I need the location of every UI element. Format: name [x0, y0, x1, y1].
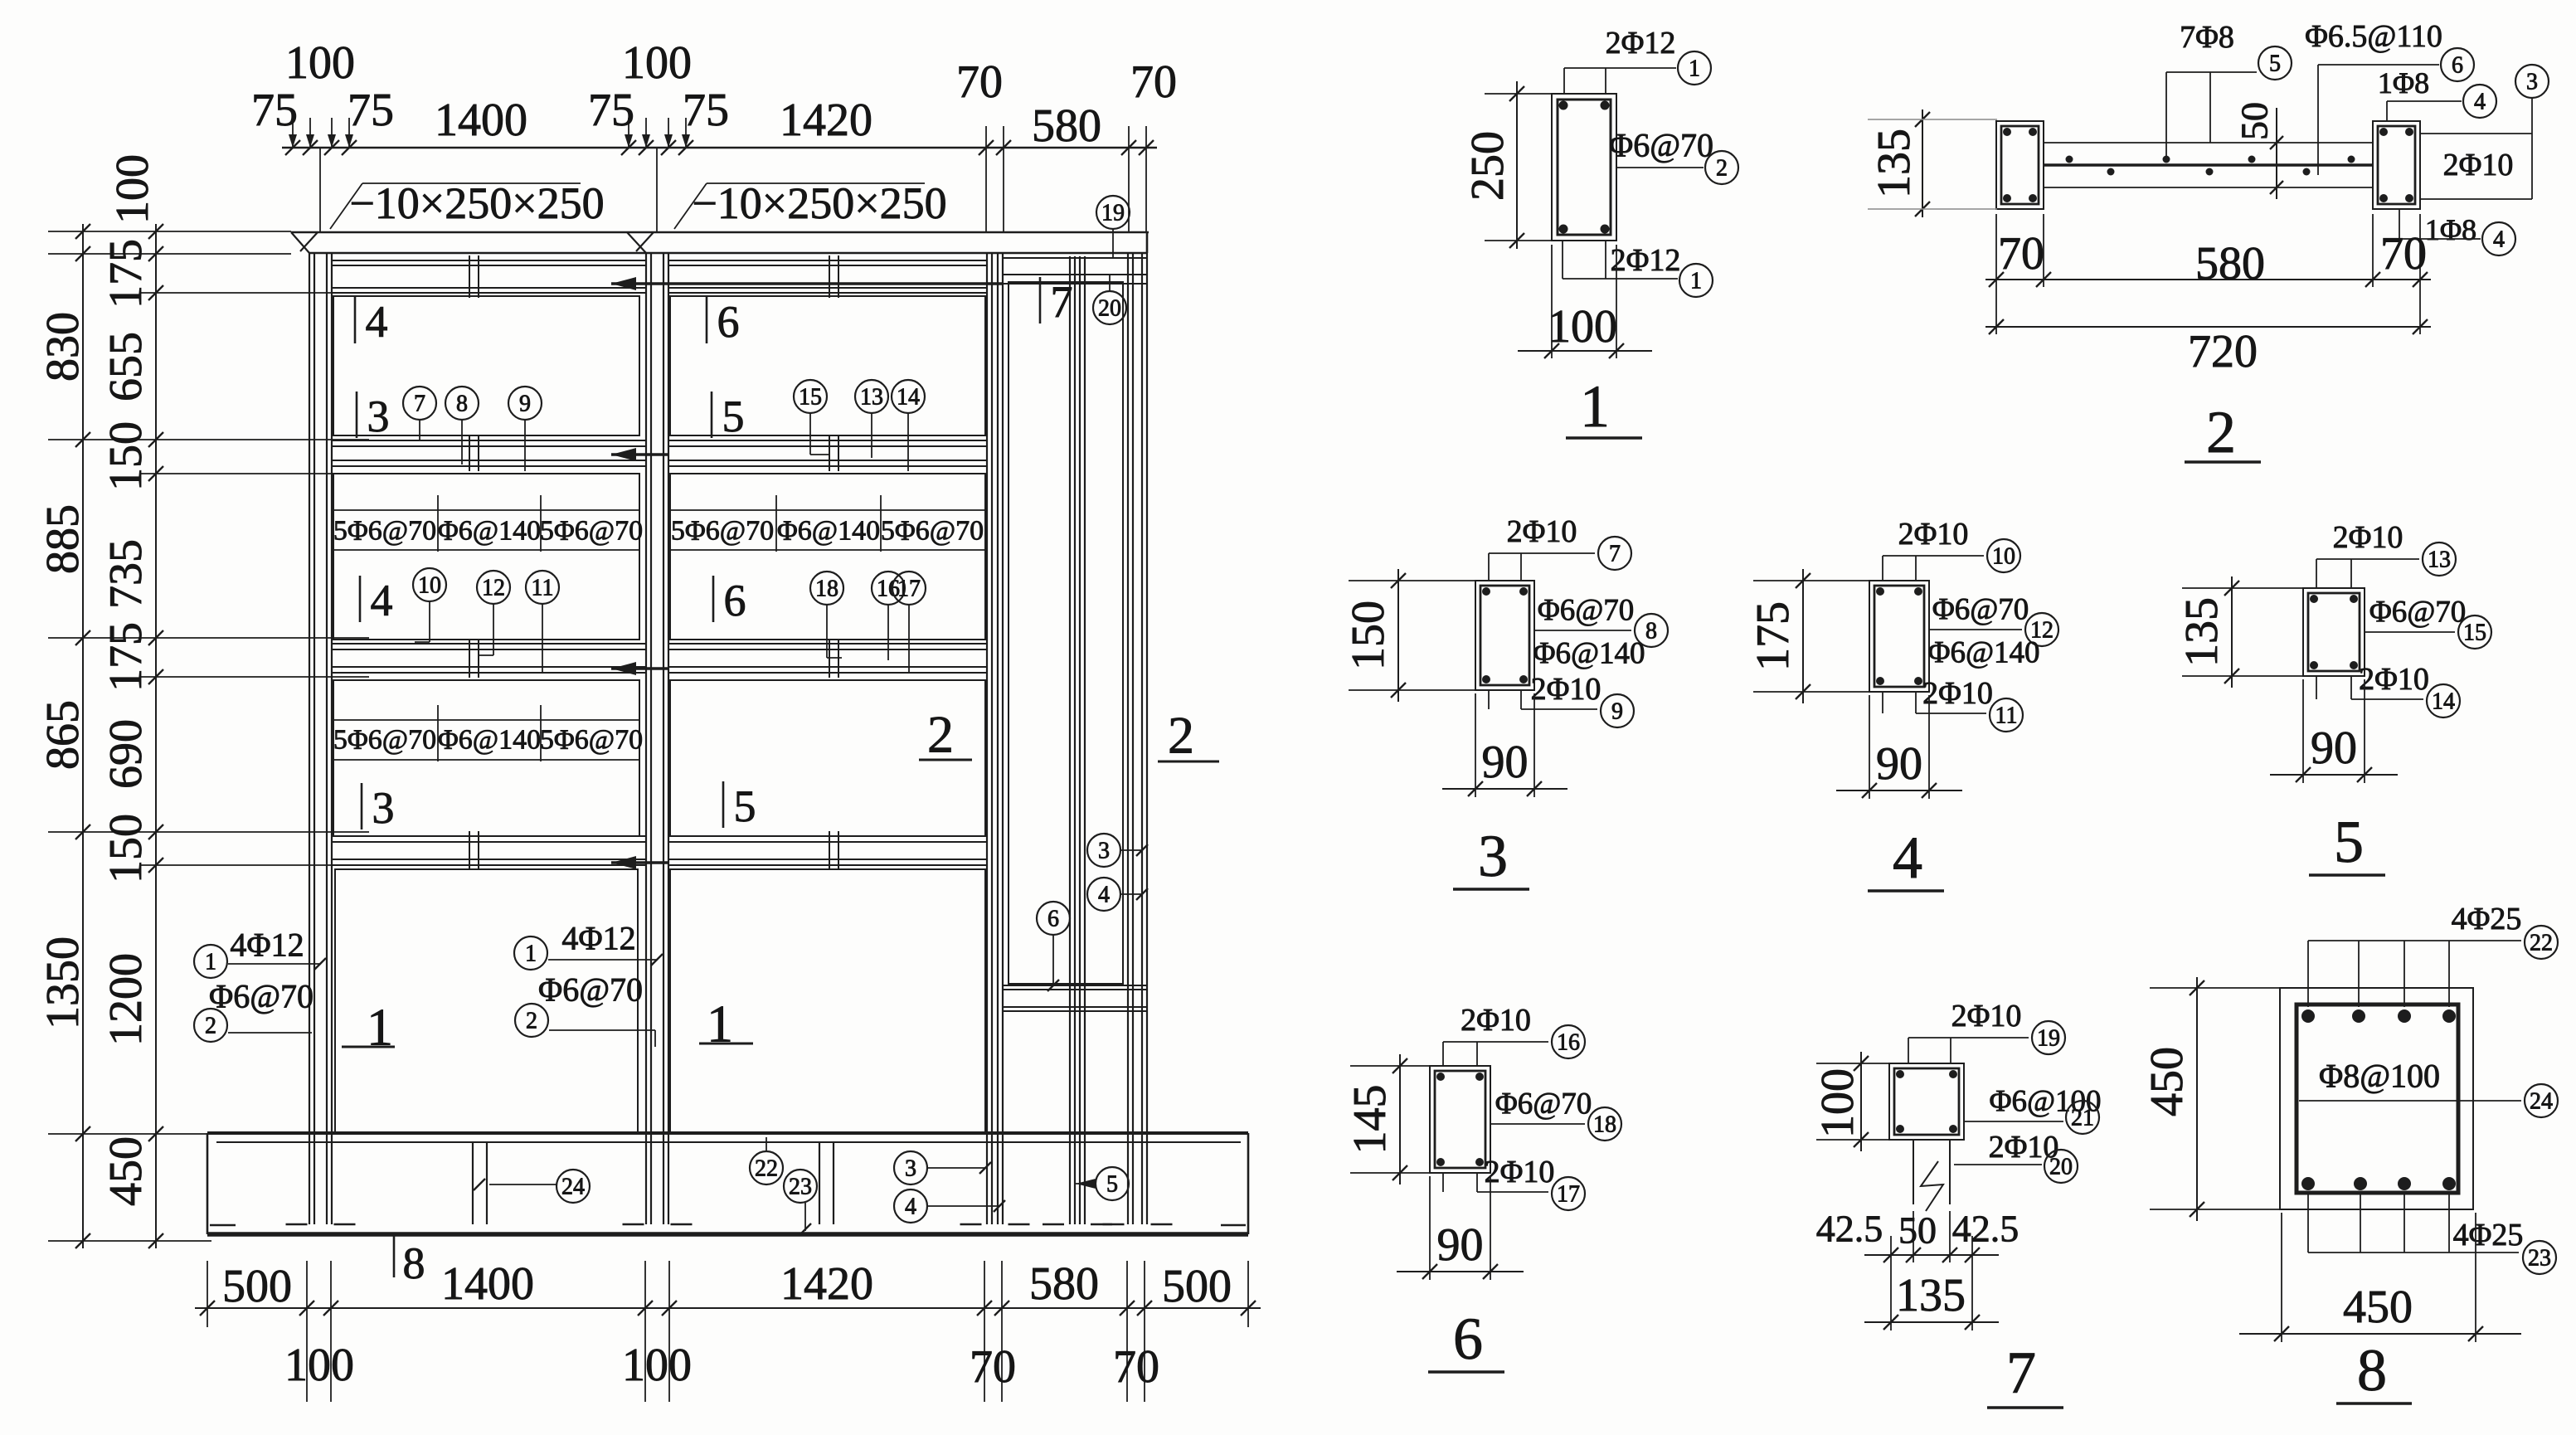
svg-text:450: 450: [2141, 1047, 2193, 1116]
top dim label 75 pair middle: [588, 85, 729, 136]
wall label 3 row1 bay1: [357, 392, 390, 441]
left outer dim line: [75, 224, 90, 1248]
svg-text:8: 8: [2357, 1337, 2387, 1403]
top dim extension lines right: [986, 126, 1146, 231]
svg-text:24: 24: [561, 1175, 585, 1200]
section2 callout 4 1phi8 bottom: [2399, 209, 2515, 255]
wall label 7 narrow bay: [1040, 277, 1073, 327]
svg-text:10: 10: [1992, 544, 2015, 570]
section2 dim 720: [1985, 287, 2431, 377]
ring beam level3 bay1: [332, 836, 646, 865]
svg-text:5: 5: [2269, 51, 2281, 77]
section7 dim 100: [1812, 1052, 1893, 1151]
section8 title 8: [2336, 1337, 2412, 1403]
foundation stirrup pair bay2: [819, 1142, 834, 1224]
svg-text:16: 16: [1557, 1030, 1580, 1056]
section6 top bars 2phi10 callout: [1443, 1003, 1585, 1066]
section8 footing outline: [2280, 988, 2473, 1209]
svg-text:3: 3: [1098, 839, 1110, 864]
svg-text:4: 4: [1893, 825, 1922, 891]
svg-text:2Φ10: 2Φ10: [1485, 1155, 1555, 1189]
section4 top bars 2phi10 callout: [1883, 517, 2020, 581]
svg-text:23: 23: [789, 1175, 812, 1200]
svg-text:70: 70: [970, 1341, 1016, 1393]
narrow bay center member: [1070, 256, 1085, 1224]
svg-text:100: 100: [622, 1340, 692, 1391]
svg-text:145: 145: [1344, 1085, 1396, 1155]
section4 title 4: [1868, 825, 1944, 891]
svg-text:720: 720: [2188, 326, 2258, 377]
column left (4 lines): [309, 253, 332, 1224]
svg-text:450: 450: [100, 1136, 152, 1206]
svg-text:1Φ8: 1Φ8: [2378, 66, 2429, 100]
svg-text:175: 175: [100, 622, 152, 692]
top dimension line: [282, 140, 1157, 155]
wall panel row3 bay1: [333, 680, 639, 836]
svg-text:9: 9: [1611, 699, 1623, 725]
top dim extension lines left column cluster: [289, 118, 353, 231]
svg-text:Φ6@70: Φ6@70: [1609, 127, 1713, 164]
svg-text:14: 14: [897, 385, 920, 411]
svg-text:4: 4: [905, 1194, 916, 1220]
wall panel row2 bay2: [670, 474, 985, 640]
svg-text:5: 5: [2334, 809, 2364, 875]
svg-text:5Φ6@70: 5Φ6@70: [540, 516, 643, 547]
ring beam level2 bay1: [332, 644, 646, 673]
section7 wall stub below with break: [1913, 1140, 1950, 1211]
svg-text:70: 70: [956, 56, 1003, 108]
svg-text:17: 17: [897, 576, 921, 602]
section6 bottom bars 2phi10 callout: [1443, 1155, 1585, 1210]
svg-text:100: 100: [1812, 1068, 1864, 1138]
svg-text:Φ6.5@110: Φ6.5@110: [2305, 19, 2442, 54]
section1 bottom bars 2phi12 callout 1: [1563, 241, 1713, 297]
svg-text:Φ6@140: Φ6@140: [438, 725, 541, 756]
svg-text:3: 3: [367, 392, 390, 441]
svg-text:Φ8@100: Φ8@100: [2319, 1058, 2440, 1095]
svg-text:5: 5: [722, 392, 745, 441]
section cut arrow level1: [611, 448, 668, 461]
svg-text:735: 735: [100, 539, 152, 609]
svg-text:11: 11: [1995, 703, 2018, 729]
svg-text:2Φ10: 2Φ10: [2333, 520, 2403, 555]
svg-text:75: 75: [251, 85, 298, 136]
section5 bottom bars 2phi10 callout: [2316, 662, 2460, 717]
svg-text:100: 100: [285, 37, 355, 89]
section5 stirrup callout: [2365, 596, 2491, 649]
svg-text:2Φ10: 2Φ10: [1531, 672, 1601, 707]
top dim extension lines middle column cluster: [625, 118, 690, 231]
svg-text:1: 1: [525, 941, 537, 967]
section5 title 5: [2309, 809, 2385, 875]
svg-text:24: 24: [2530, 1089, 2553, 1115]
svg-text:1: 1: [1689, 56, 1700, 82]
section4 bottom bars 2phi10 callout: [1883, 676, 2023, 732]
svg-text:7: 7: [1051, 277, 1073, 327]
wall panel row1 bay1: [333, 296, 639, 435]
svg-text:Φ6@140: Φ6@140: [777, 516, 880, 547]
callout 11 wall4: [526, 571, 559, 673]
svg-text:2: 2: [526, 1009, 537, 1034]
svg-text:1400: 1400: [435, 95, 527, 146]
section3 width dim 90: [1442, 693, 1567, 797]
svg-text:1: 1: [1580, 373, 1610, 440]
svg-text:70: 70: [1998, 228, 2044, 280]
svg-text:90: 90: [1876, 738, 1922, 790]
section7 dim 135: [1864, 1270, 1999, 1330]
svg-text:6: 6: [1453, 1306, 1483, 1372]
section2 dim 70 580 70: [1985, 214, 2431, 289]
svg-text:4: 4: [1098, 883, 1110, 908]
beam connector marks: [469, 255, 838, 870]
svg-text:2Φ10: 2Φ10: [1922, 676, 1993, 711]
section5 column outline: [2303, 588, 2365, 676]
svg-text:50: 50: [2233, 102, 2276, 140]
callout 20 top right: [1093, 275, 1126, 324]
callout 24 foundation: [474, 1170, 590, 1203]
wall panel narrow bay inner border: [1009, 282, 1123, 984]
section cut arrow level3: [611, 856, 668, 869]
svg-text:42.5: 42.5: [1952, 1208, 2019, 1250]
section4 vertical dim 175: [1747, 569, 1871, 703]
section1 title 1: [1566, 373, 1642, 440]
svg-text:Φ6@70: Φ6@70: [209, 978, 313, 1015]
svg-text:Φ6@140: Φ6@140: [1927, 636, 2039, 670]
svg-text:−10×250×250: −10×250×250: [349, 178, 604, 228]
section2 right boundary column: [2373, 121, 2420, 209]
callout 3 right column: [1087, 834, 1148, 867]
section2 callout 5 7phi8: [2166, 20, 2292, 163]
wall label 6 row2 bay2: [713, 576, 746, 625]
foundation column feet: [210, 1224, 1246, 1225]
svg-text:Φ6@70: Φ6@70: [1538, 594, 1635, 628]
section7 stirrup phi6@100 callout 21: [1964, 1085, 2102, 1135]
svg-text:4: 4: [2493, 227, 2505, 253]
callout 22 foundation: [750, 1137, 783, 1184]
top dim label 75 pair left: [251, 85, 394, 136]
section2 left boundary column: [1996, 121, 2044, 209]
svg-text:Φ6@70: Φ6@70: [538, 971, 643, 1009]
svg-text:9: 9: [519, 392, 531, 417]
callout 12 wall4: [477, 571, 510, 655]
svg-text:Φ6@70: Φ6@70: [2369, 596, 2467, 630]
section6 stirrup callout: [1490, 1087, 1621, 1141]
svg-text:3: 3: [905, 1156, 916, 1182]
column right edge: [1128, 253, 1147, 1224]
svg-text:100: 100: [1548, 301, 1617, 353]
svg-text:580: 580: [1032, 100, 1101, 152]
svg-text:2: 2: [2206, 399, 2236, 465]
callout 7 wall3: [403, 387, 436, 440]
section3 top bars 2phi10 callout: [1489, 514, 1631, 581]
bottom beam narrow bay: [1003, 985, 1146, 1011]
svg-text:1350: 1350: [37, 936, 89, 1029]
section cut arrow top: [611, 277, 1003, 290]
section1 top bars 2phi12 callout 1: [1564, 26, 1711, 94]
left dim extension lines: [48, 231, 369, 1241]
mesh band2 bay1: [333, 705, 643, 761]
svg-text:175: 175: [100, 239, 152, 309]
bottom dim extension lines: [207, 1261, 1248, 1402]
section7 title 7: [1987, 1340, 2063, 1408]
section7 column outline: [1889, 1063, 1964, 1140]
svg-text:5Φ6@70: 5Φ6@70: [333, 725, 436, 756]
svg-text:Φ6@140: Φ6@140: [1533, 637, 1645, 671]
svg-text:5Φ6@70: 5Φ6@70: [881, 516, 984, 547]
section2 dim 50: [2233, 102, 2284, 199]
rebar label 2 middle column: [515, 971, 655, 1048]
section3 vertical dim 150: [1343, 569, 1477, 702]
svg-text:830: 830: [37, 312, 89, 382]
svg-text:15: 15: [799, 385, 822, 411]
ring beam level2 bay2: [668, 644, 987, 673]
svg-text:1: 1: [1690, 269, 1702, 294]
svg-text:1420: 1420: [780, 1258, 873, 1310]
svg-text:6: 6: [724, 576, 746, 625]
foundation stirrup pair bay1: [473, 1142, 487, 1224]
svg-text:19: 19: [2037, 1026, 2060, 1052]
plate callout -10x250x250 right: [674, 178, 947, 229]
top ring beam bay1: [332, 260, 646, 293]
section2 title 2: [2185, 399, 2261, 465]
callout 15 wall5: [794, 380, 829, 455]
section label 2 bay2: [919, 705, 972, 764]
svg-text:4Φ12: 4Φ12: [230, 927, 304, 964]
callout 13 wall5: [855, 380, 888, 458]
svg-text:450: 450: [2343, 1282, 2413, 1333]
svg-text:250: 250: [1462, 131, 1514, 201]
svg-text:3: 3: [2526, 70, 2538, 95]
section8 callout 24 stirrup: [2299, 1084, 2558, 1117]
wall label 5 row1 bay2: [712, 392, 745, 441]
svg-text:75: 75: [588, 85, 634, 136]
svg-text:6: 6: [2452, 53, 2463, 79]
top beam narrow bay: [1003, 258, 1146, 284]
wall label 4 row1 bay1: [355, 297, 388, 347]
svg-text:5Φ6@70: 5Φ6@70: [333, 516, 436, 547]
svg-text:2Φ10: 2Φ10: [1507, 514, 1577, 549]
svg-text:100: 100: [107, 154, 158, 224]
svg-text:2Φ12: 2Φ12: [1606, 26, 1676, 61]
svg-text:2Φ10: 2Φ10: [1461, 1003, 1531, 1038]
svg-text:1Φ8: 1Φ8: [2425, 213, 2476, 246]
svg-text:10: 10: [418, 573, 441, 599]
mesh band1 bay2: [670, 495, 985, 552]
svg-text:2Φ10: 2Φ10: [1989, 1130, 2059, 1165]
section6 width dim 90: [1397, 1176, 1524, 1280]
section3 title 3: [1453, 823, 1529, 889]
svg-text:4: 4: [366, 297, 388, 347]
section5 vertical dim 135: [2176, 576, 2305, 688]
svg-text:14: 14: [2432, 689, 2455, 715]
svg-text:150: 150: [100, 421, 152, 491]
rebar label 1 middle column: [514, 920, 663, 970]
svg-text:Φ6@70: Φ6@70: [1932, 593, 2029, 627]
callout 23 foundation: [784, 1170, 817, 1235]
svg-text:4Φ25: 4Φ25: [2453, 1218, 2524, 1253]
wall panel row1 bay2: [670, 296, 985, 435]
svg-text:Φ6@70: Φ6@70: [1495, 1087, 1592, 1121]
svg-text:2Φ12: 2Φ12: [1611, 243, 1681, 278]
section5 top bars 2phi10 callout: [2316, 520, 2456, 588]
section label 1 bay2: [699, 995, 753, 1053]
section label 1 bay1: [342, 998, 395, 1057]
svg-text:135: 135: [1896, 1270, 1966, 1321]
section3 bottom bars 2phi10 callout: [1489, 672, 1634, 727]
section8 dim 450 vertical: [2141, 977, 2285, 1221]
callout 5 foundation: [1076, 1167, 1129, 1200]
svg-text:1400: 1400: [441, 1258, 534, 1310]
svg-text:2Φ10: 2Φ10: [1898, 517, 1969, 552]
svg-text:6: 6: [1047, 907, 1059, 932]
wall label 3 row3 bay1: [362, 783, 395, 833]
svg-text:5: 5: [734, 781, 756, 831]
svg-text:8: 8: [456, 392, 468, 417]
svg-text:17: 17: [1557, 1182, 1580, 1208]
svg-text:12: 12: [482, 576, 505, 601]
section5 width dim 90: [2270, 679, 2398, 783]
svg-text:90: 90: [2311, 722, 2357, 774]
svg-text:175: 175: [1747, 601, 1799, 671]
foundation beam outline: [207, 1133, 1248, 1234]
wall label 4 row2 bay1: [360, 576, 393, 625]
top plate: [291, 232, 1149, 253]
svg-text:1: 1: [205, 950, 216, 975]
svg-text:70: 70: [2380, 228, 2427, 280]
callout 6 narrow bay: [1037, 902, 1070, 991]
foundation label 8: [394, 1235, 425, 1288]
callout 8 wall3: [445, 387, 479, 465]
svg-text:22: 22: [755, 1156, 778, 1182]
svg-text:7: 7: [1609, 542, 1621, 567]
section6 title 6: [1428, 1306, 1504, 1372]
section1 dim 100: [1518, 245, 1652, 358]
svg-text:655: 655: [100, 332, 152, 401]
svg-text:2: 2: [1168, 706, 1194, 765]
svg-text:8: 8: [403, 1238, 425, 1288]
svg-text:3: 3: [1478, 823, 1508, 889]
svg-text:4Φ25: 4Φ25: [2452, 902, 2522, 936]
svg-text:90: 90: [1482, 737, 1529, 788]
svg-text:20: 20: [1098, 296, 1121, 322]
svg-text:75: 75: [348, 85, 394, 136]
svg-text:70: 70: [1113, 1341, 1159, 1393]
svg-text:5: 5: [1106, 1172, 1118, 1198]
svg-text:2: 2: [205, 1014, 216, 1039]
svg-text:135: 135: [1869, 129, 1920, 198]
section2 callout 6 phi6.5@110: [2305, 19, 2474, 175]
wall panel bottom bay1: [335, 869, 638, 1132]
rebar label 1 left column: [194, 927, 326, 979]
section7 dim 42.5 50 42.5: [1816, 1208, 2019, 1331]
svg-text:865: 865: [37, 700, 89, 770]
svg-text:2Φ10: 2Φ10: [1951, 999, 2022, 1034]
section label 2 right: [1158, 706, 1219, 765]
svg-text:150: 150: [100, 814, 152, 883]
svg-text:19: 19: [1101, 201, 1125, 226]
svg-text:690: 690: [100, 719, 152, 789]
section4 column outline: [1869, 581, 1929, 692]
section1 dim 250: [1462, 81, 1555, 249]
svg-text:13: 13: [860, 385, 883, 411]
callout 10 wall4: [413, 568, 446, 642]
wall panel row2 bay1: [333, 474, 639, 640]
svg-text:885: 885: [37, 504, 89, 574]
svg-text:2Φ10: 2Φ10: [2443, 148, 2514, 182]
callout 9 wall3: [508, 387, 542, 471]
svg-text:5Φ6@70: 5Φ6@70: [540, 725, 643, 756]
section1 column outline: [1552, 94, 1616, 241]
svg-text:7: 7: [414, 392, 425, 417]
section2 callout 4 1phi8 top: [2378, 66, 2496, 121]
svg-text:7: 7: [2006, 1340, 2036, 1406]
svg-text:18: 18: [815, 576, 838, 602]
rebar label 2 left column: [194, 978, 313, 1043]
section2 dim 135: [1868, 109, 1997, 217]
ring beam level1 bay1: [332, 440, 646, 466]
svg-text:580: 580: [2195, 238, 2265, 289]
svg-text:2Φ10: 2Φ10: [2359, 662, 2429, 697]
ring beam level3 bay2: [668, 836, 987, 865]
callout 14 wall5: [892, 380, 925, 471]
section1 stirrup phi6@70 callout 2: [1609, 127, 1738, 185]
section6 column outline: [1430, 1066, 1490, 1173]
section8 dim 450 horizontal: [2239, 1213, 2521, 1342]
wall panel row3 bay2: [670, 680, 985, 836]
svg-text:4: 4: [371, 576, 393, 625]
svg-text:3: 3: [372, 783, 395, 833]
svg-text:6: 6: [717, 297, 740, 347]
svg-text:70: 70: [1130, 56, 1177, 108]
svg-text:2: 2: [927, 705, 954, 764]
svg-text:1200: 1200: [100, 953, 152, 1046]
section8 top bars 4phi25 callout 22: [2308, 902, 2558, 1007]
svg-text:100: 100: [284, 1340, 354, 1391]
callout 17 wall6: [892, 572, 926, 673]
top ring beam bay2: [668, 260, 987, 293]
svg-text:4: 4: [2474, 90, 2486, 115]
section7 bottom bars 2phi10 callout 20: [1954, 1130, 2078, 1183]
section4 stirrup callout: [1927, 593, 2058, 670]
ring beam level1 bay2: [668, 440, 987, 466]
callout 19 top right: [1096, 196, 1130, 258]
section4 width dim 90: [1836, 695, 1962, 799]
column middle (4 lines): [646, 253, 668, 1224]
svg-text:500: 500: [1162, 1261, 1232, 1312]
svg-text:7Φ8: 7Φ8: [2180, 20, 2234, 55]
svg-text:500: 500: [222, 1261, 292, 1312]
svg-text:4Φ12: 4Φ12: [561, 920, 635, 957]
svg-text:11: 11: [532, 576, 554, 601]
svg-text:18: 18: [1593, 1112, 1616, 1138]
svg-text:135: 135: [2176, 597, 2228, 667]
svg-text:90: 90: [1437, 1219, 1484, 1271]
svg-text:1420: 1420: [780, 95, 872, 146]
mesh band1 bay1: [333, 495, 643, 552]
callout 4 right column: [1087, 878, 1148, 911]
callout 4 foundation: [894, 1189, 1005, 1223]
section7 top bars 2phi10 callout 19: [1908, 999, 2065, 1063]
callout 18 wall6: [810, 572, 843, 658]
svg-text:22: 22: [2530, 931, 2553, 956]
svg-text:50: 50: [1898, 1209, 1937, 1252]
svg-text:100: 100: [622, 37, 692, 89]
section3 column outline: [1475, 581, 1534, 690]
svg-text:42.5: 42.5: [1816, 1208, 1883, 1250]
section2 wall web: [2044, 143, 2373, 187]
plate callout -10x250x250 left: [330, 178, 605, 229]
wall panel bottom bay2: [670, 869, 985, 1132]
